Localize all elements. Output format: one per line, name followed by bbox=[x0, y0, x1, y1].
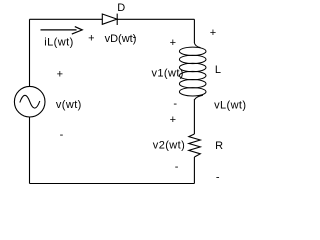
svg-text:iL(wt): iL(wt) bbox=[44, 37, 74, 49]
wire right vertical lower bbox=[193, 157, 195, 184]
svg-text:+: + bbox=[57, 69, 63, 81]
svg-text:+: + bbox=[88, 33, 94, 45]
wire right vertical upper bbox=[193, 19, 195, 43]
svg-text:L: L bbox=[215, 64, 221, 76]
wire bottom horizontal bbox=[30, 183, 195, 185]
svg-text:v2(wt): v2(wt) bbox=[153, 140, 185, 152]
diode D bbox=[102, 14, 117, 25]
svg-text:v1(wt): v1(wt) bbox=[152, 67, 184, 79]
current direction arrow iL bbox=[41, 27, 83, 34]
svg-text:R: R bbox=[215, 140, 223, 152]
svg-text:-: - bbox=[173, 98, 177, 110]
wire right vertical middle bbox=[193, 99, 195, 134]
svg-text:+: + bbox=[170, 114, 176, 126]
svg-text:vL(wt): vL(wt) bbox=[214, 100, 246, 112]
wire left vertical lower bbox=[29, 117, 31, 184]
wire top right horizontal bbox=[117, 18, 194, 20]
svg-text:+: + bbox=[210, 27, 216, 39]
svg-text:-: - bbox=[60, 129, 64, 141]
inductor L bbox=[179, 43, 206, 100]
svg-text:-: - bbox=[133, 32, 137, 44]
svg-text:+: + bbox=[170, 37, 176, 49]
wire left vertical upper bbox=[29, 19, 31, 86]
svg-text:-: - bbox=[216, 172, 220, 184]
svg-text:-: - bbox=[175, 161, 179, 173]
svg-text:v(wt): v(wt) bbox=[56, 99, 82, 111]
resistor R bbox=[189, 134, 201, 157]
svg-text:D: D bbox=[117, 2, 125, 14]
ac voltage source v(wt) bbox=[14, 86, 45, 117]
wire top left horizontal bbox=[30, 18, 103, 20]
